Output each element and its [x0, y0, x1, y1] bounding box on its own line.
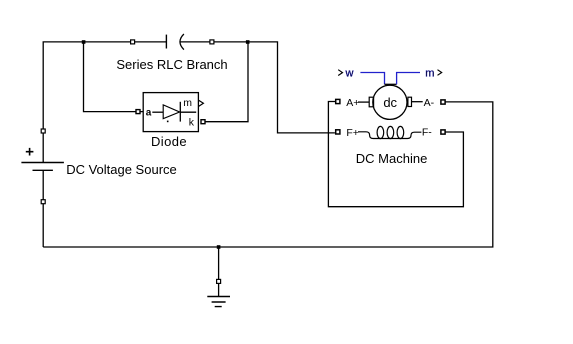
wire: cathode lead inside diode	[180, 111, 196, 113]
blue wire: machine top to m	[397, 73, 420, 85]
wire: battery bottom lead	[42, 170, 44, 247]
svg-text:k: k	[189, 117, 195, 129]
diode icon dot	[167, 121, 169, 123]
port marker: DC Machine F-	[441, 130, 445, 134]
junction: k return joins top wire	[246, 40, 250, 44]
port marker: source + port	[41, 129, 45, 133]
ground symbol	[207, 297, 230, 307]
svg-text:m: m	[183, 97, 192, 109]
wire: ground lower stem	[218, 283, 220, 296]
svg-text:Diode: Diode	[151, 134, 187, 149]
wire: diode k to top wire (right vertical)	[205, 42, 248, 122]
DC Machine output chevron after m	[438, 70, 442, 76]
wire: bottom rail + A- return	[43, 102, 493, 247]
right brush	[408, 97, 412, 106]
battery long plate	[21, 162, 64, 164]
port marker: diode k output	[201, 120, 205, 124]
port marker: source - port	[41, 200, 45, 204]
armature circle	[373, 85, 407, 119]
svg-text:DC Voltage Source: DC Voltage Source	[66, 162, 177, 177]
port marker: DC Machine A-	[441, 100, 445, 104]
left brush	[369, 97, 373, 107]
DC Voltage Source plus sign	[26, 148, 34, 156]
capacitor C (Series RLC Branch) curved plate	[180, 34, 184, 50]
wire: capacitor to F+ feed (top right horizontal, down, to F+)	[180, 42, 335, 133]
capacitor C (Series RLC Branch) left plate	[165, 35, 167, 49]
port marker: Series RLC Branch right port	[210, 40, 214, 44]
blue wire: w to machine top	[360, 73, 384, 85]
junction: top wire to diode branch	[82, 40, 86, 44]
svg-text:m: m	[425, 67, 434, 79]
svg-text:w: w	[345, 67, 354, 79]
wire: ground stem	[218, 247, 220, 280]
wire: A+ to F- loop (around DC Machine label)	[328, 102, 463, 207]
svg-text:F-: F-	[422, 127, 432, 139]
junction: ground tap on bottom rail	[217, 245, 221, 249]
svg-text:A-: A-	[424, 97, 435, 109]
svg-text:F+: F+	[346, 127, 359, 139]
wire: A+ label to left brush	[358, 101, 369, 103]
wire: left vertical + top horizontal to capacitor plate	[43, 42, 166, 163]
wire: right brush to A- label	[412, 101, 423, 103]
svg-text:A+: A+	[346, 97, 359, 109]
DC Machine input chevron before w	[338, 70, 342, 76]
svg-text:DC Machine: DC Machine	[356, 151, 428, 166]
diode triangle	[163, 105, 179, 119]
field inductor coil	[358, 132, 421, 139]
machine top black segment	[385, 83, 397, 85]
svg-text:dc: dc	[383, 95, 397, 110]
svg-text:Series RLC Branch: Series RLC Branch	[116, 57, 227, 72]
port marker: DC Machine F+	[336, 130, 340, 134]
svg-text:a: a	[146, 108, 152, 119]
diode cathode bar	[179, 102, 181, 122]
wire: branch down to diode anode	[84, 42, 144, 112]
port marker: Series RLC Branch left port	[131, 40, 135, 44]
port marker: DC Machine A+	[336, 99, 340, 103]
battery short plate	[33, 169, 53, 171]
diode m output chevron	[199, 100, 204, 106]
wire: anode lead inside diode	[152, 111, 163, 113]
port marker: diode anode input	[136, 110, 140, 114]
port marker: ground port	[217, 279, 221, 283]
diode block D1 body	[143, 93, 198, 132]
